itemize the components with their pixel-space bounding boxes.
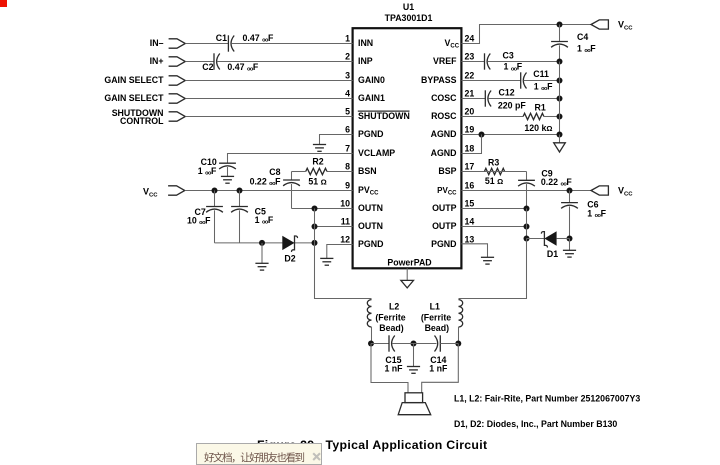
svg-text:D1, D2: Diodes, Inc., Part Num: D1, D2: Diodes, Inc., Part Number B130 bbox=[454, 419, 617, 429]
svg-text:12: 12 bbox=[340, 234, 350, 244]
svg-text:5: 5 bbox=[345, 106, 350, 116]
svg-text:GAIN SELECT: GAIN SELECT bbox=[104, 93, 164, 103]
svg-text:ROSC: ROSC bbox=[431, 111, 457, 121]
svg-text:IN–: IN– bbox=[150, 38, 164, 48]
svg-text:(Ferrite: (Ferrite bbox=[421, 312, 451, 322]
svg-text:D1: D1 bbox=[547, 249, 558, 259]
svg-text:51 Ω: 51 Ω bbox=[485, 176, 503, 186]
svg-text:AGND: AGND bbox=[431, 129, 457, 139]
svg-text:16: 16 bbox=[465, 180, 475, 190]
svg-text:1 ooF: 1 ooF bbox=[587, 208, 606, 219]
svg-text:BYPASS: BYPASS bbox=[421, 75, 457, 85]
svg-text:R2: R2 bbox=[312, 156, 323, 166]
svg-text:0.22 ooF: 0.22 ooF bbox=[250, 177, 282, 188]
svg-text:L1: L1 bbox=[430, 302, 440, 312]
svg-text:Bead): Bead) bbox=[379, 323, 404, 333]
svg-text:18: 18 bbox=[465, 143, 475, 153]
svg-text:1 nF: 1 nF bbox=[429, 364, 448, 374]
svg-text:BSN: BSN bbox=[358, 166, 377, 176]
svg-text:GAIN0: GAIN0 bbox=[358, 75, 385, 85]
svg-text:(Ferrite: (Ferrite bbox=[375, 312, 405, 322]
svg-text:R1: R1 bbox=[535, 103, 546, 113]
svg-text:PGND: PGND bbox=[431, 239, 456, 249]
svg-text:10: 10 bbox=[340, 198, 350, 208]
svg-text:1 ooF: 1 ooF bbox=[534, 81, 553, 92]
svg-text:VCC: VCC bbox=[618, 20, 633, 32]
svg-text:PGND: PGND bbox=[358, 239, 383, 249]
svg-text:15: 15 bbox=[465, 198, 475, 208]
svg-text:23: 23 bbox=[465, 51, 475, 61]
svg-text:TPA3001D1: TPA3001D1 bbox=[385, 13, 433, 23]
svg-text:GAIN1: GAIN1 bbox=[358, 93, 385, 103]
svg-text:C11: C11 bbox=[533, 69, 549, 79]
svg-text:INN: INN bbox=[358, 38, 373, 48]
svg-text:Bead): Bead) bbox=[425, 323, 450, 333]
svg-text:1 nF: 1 nF bbox=[384, 364, 403, 374]
svg-text:D2: D2 bbox=[284, 253, 295, 263]
svg-text:19: 19 bbox=[465, 124, 475, 134]
svg-text:OUTP: OUTP bbox=[432, 203, 457, 213]
svg-text:17: 17 bbox=[465, 161, 475, 171]
svg-text:OUTP: OUTP bbox=[432, 221, 457, 231]
svg-text:AGND: AGND bbox=[431, 148, 457, 158]
svg-text:0.22 ooF: 0.22 ooF bbox=[541, 177, 573, 188]
svg-text:GAIN SELECT: GAIN SELECT bbox=[104, 75, 164, 85]
svg-text:VCLAMP: VCLAMP bbox=[358, 148, 395, 158]
svg-text:C4: C4 bbox=[577, 32, 588, 42]
svg-text:L1, L2: Fair-Rite, Part Number: L1, L2: Fair-Rite, Part Number 251206700… bbox=[454, 394, 640, 404]
svg-text:L2: L2 bbox=[389, 302, 399, 312]
svg-text:7: 7 bbox=[345, 143, 350, 153]
svg-text:11: 11 bbox=[341, 216, 350, 226]
svg-text:OUTN: OUTN bbox=[358, 203, 383, 213]
svg-text:21: 21 bbox=[465, 88, 475, 98]
svg-text:PowerPAD: PowerPAD bbox=[387, 258, 431, 268]
svg-text:1 ooF: 1 ooF bbox=[198, 166, 217, 177]
svg-text:10 ooF: 10 ooF bbox=[187, 215, 211, 226]
svg-text:2: 2 bbox=[345, 51, 350, 61]
svg-text:BSP: BSP bbox=[438, 166, 456, 176]
svg-text:SHUTDOWN: SHUTDOWN bbox=[358, 111, 410, 121]
svg-text:COSC: COSC bbox=[431, 93, 457, 103]
svg-text:1 ooF: 1 ooF bbox=[504, 62, 523, 73]
svg-text:IN+: IN+ bbox=[150, 56, 164, 66]
svg-text:220 pF: 220 pF bbox=[498, 100, 526, 110]
svg-text:6: 6 bbox=[345, 124, 350, 134]
svg-text:VCC: VCC bbox=[618, 186, 633, 198]
svg-text:R3: R3 bbox=[488, 158, 499, 168]
svg-text:VCC: VCC bbox=[143, 187, 158, 199]
svg-text:C1: C1 bbox=[216, 33, 227, 43]
svg-text:4: 4 bbox=[345, 88, 350, 98]
svg-text:1 ooF: 1 ooF bbox=[577, 44, 596, 55]
svg-text:C12: C12 bbox=[499, 88, 515, 98]
svg-text:14: 14 bbox=[465, 216, 475, 226]
svg-text:24: 24 bbox=[465, 33, 475, 43]
svg-text:0.47 ooF: 0.47 ooF bbox=[227, 62, 259, 73]
svg-text:C2: C2 bbox=[202, 62, 213, 72]
svg-text:9: 9 bbox=[345, 180, 350, 190]
svg-text:20: 20 bbox=[465, 106, 475, 116]
svg-text:1: 1 bbox=[345, 33, 350, 43]
svg-text:U1: U1 bbox=[403, 2, 414, 12]
svg-text:CONTROL: CONTROL bbox=[120, 116, 164, 126]
svg-text:22: 22 bbox=[465, 70, 475, 80]
svg-text:0.47 ooF: 0.47 ooF bbox=[243, 33, 275, 44]
svg-text:OUTN: OUTN bbox=[358, 221, 383, 231]
svg-text:8: 8 bbox=[345, 161, 350, 171]
svg-text:3: 3 bbox=[345, 70, 350, 80]
svg-text:INP: INP bbox=[358, 56, 373, 66]
svg-text:PGND: PGND bbox=[358, 129, 383, 139]
svg-text:51 Ω: 51 Ω bbox=[308, 176, 326, 186]
svg-text:C3: C3 bbox=[503, 50, 514, 60]
svg-text:13: 13 bbox=[465, 234, 475, 244]
svg-text:120 kΩ: 120 kΩ bbox=[524, 123, 552, 133]
svg-text:VREF: VREF bbox=[433, 56, 457, 66]
